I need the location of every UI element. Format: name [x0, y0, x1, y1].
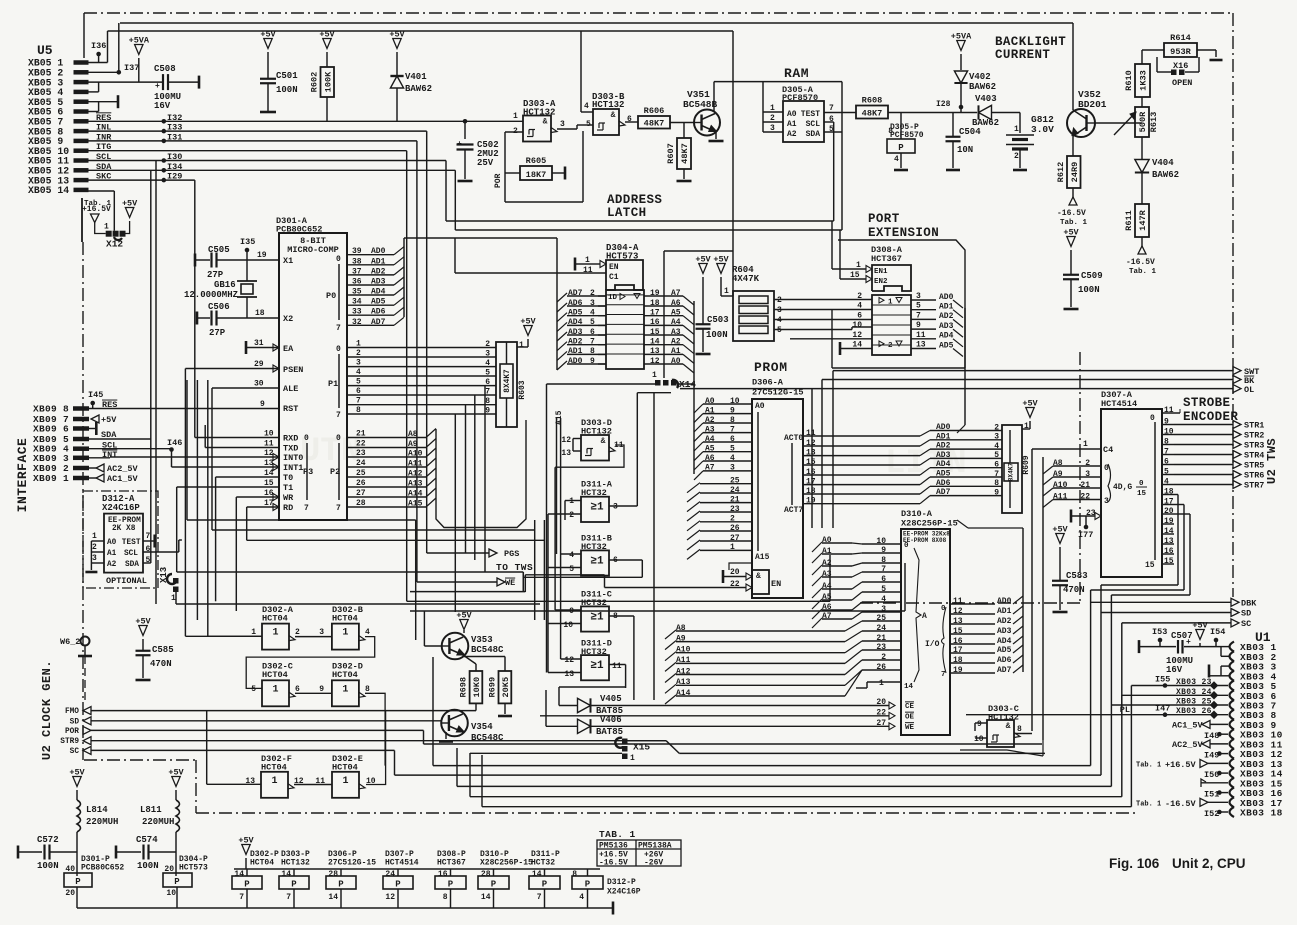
wire RAM top — [763, 82, 783, 132]
wire V353 emitter split — [463, 655, 505, 671]
text BACKLIGHT CURRENT — [995, 35, 1066, 62]
svg-text:7: 7 — [537, 893, 542, 902]
svg-text:100K: 100K — [323, 71, 333, 92]
svg-text:V354: V354 — [471, 722, 493, 732]
wire SDA line — [88, 170, 455, 563]
latch D304-A EN box — [606, 260, 643, 290]
svg-text:3: 3 — [777, 306, 782, 315]
svg-text:220MUH: 220MUH — [142, 817, 174, 827]
wire INT0 — [110, 456, 279, 458]
R603 pin numbers — [485, 340, 490, 416]
text PROM — [754, 360, 788, 375]
svg-text:8X4K7: 8X4K7 — [504, 369, 512, 393]
wire D303-B out 6 to R606 — [625, 115, 638, 124]
svg-text:AC2_5V: AC2_5V — [1172, 740, 1204, 750]
svg-text:AD4: AD4 — [997, 637, 1012, 646]
net -16.5V right — [1136, 798, 1228, 809]
svg-text:I55: I55 — [1155, 675, 1170, 685]
block D305-A PCF8570 — [782, 85, 824, 142]
stub XB03 15 — [1201, 779, 1228, 787]
svg-text:Tab. 1: Tab. 1 — [1129, 268, 1157, 276]
wire RST pin9 — [87, 400, 298, 414]
power +5V C503 — [695, 255, 711, 325]
gate D311-A HCT32 — [548, 480, 637, 523]
svg-text:P: P — [542, 880, 548, 890]
ground R699 — [498, 715, 512, 718]
svg-text:A15: A15 — [408, 500, 423, 509]
svg-text:P: P — [291, 880, 297, 890]
text INTERFACE — [15, 438, 30, 513]
svg-text:T0: T0 — [283, 473, 293, 483]
net INT XB09-3 — [89, 450, 117, 460]
svg-text:2: 2 — [295, 628, 300, 637]
svg-text:12: 12 — [561, 436, 571, 445]
svg-text:3: 3 — [319, 628, 324, 637]
svg-text:A0: A0 — [755, 402, 765, 411]
svg-text:4D,G: 4D,G — [1113, 483, 1132, 492]
svg-text:A13: A13 — [408, 480, 423, 489]
svg-text:ALE: ALE — [283, 384, 298, 394]
svg-text:U5: U5 — [37, 43, 53, 58]
resistor R611 — [1124, 204, 1149, 247]
svg-text:X1: X1 — [283, 256, 293, 266]
resistor network R603 8X4K7 — [496, 342, 527, 427]
svg-text:A15: A15 — [755, 553, 770, 562]
svg-text:AD5: AD5 — [371, 298, 386, 307]
svg-text:AC2_5V: AC2_5V — [107, 464, 139, 474]
block D303-P — [279, 850, 310, 908]
svg-text:I51: I51 — [1204, 790, 1219, 800]
wire TXD — [205, 447, 279, 449]
svg-text:7: 7 — [829, 104, 834, 113]
D310 fan A8-A14 — [665, 621, 862, 704]
svg-text:P: P — [585, 880, 591, 890]
wire ALE pin30 — [212, 380, 298, 531]
wire RAM pin6 SCL — [446, 115, 834, 221]
svg-text:PSEN: PSEN — [283, 365, 303, 375]
svg-text:D312-P: D312-P — [607, 878, 636, 887]
svg-text:HCT04: HCT04 — [262, 614, 288, 624]
svg-text:P1: P1 — [328, 379, 338, 389]
wire bus y797 — [470, 753, 1122, 797]
svg-text:AC1_5V: AC1_5V — [107, 474, 139, 484]
svg-text:7: 7 — [941, 671, 946, 679]
svg-text:7: 7 — [336, 411, 341, 420]
node I36 — [88, 41, 108, 63]
svg-text:STR9: STR9 — [60, 738, 79, 746]
svg-text:1: 1 — [513, 112, 518, 121]
svg-text:18: 18 — [255, 309, 265, 318]
resistor R605 — [505, 156, 565, 180]
svg-text:4: 4 — [579, 893, 584, 902]
svg-text:C507: C507 — [1171, 631, 1193, 641]
net +16.5V right — [1136, 759, 1228, 770]
svg-text:WR: WR — [283, 493, 294, 503]
block D306-A PROM box — [752, 399, 803, 598]
svg-text:T1: T1 — [283, 483, 293, 493]
power +5V R603 pin1 — [517, 317, 537, 351]
svg-text:RES: RES — [102, 400, 117, 410]
wires R604 outputs — [774, 296, 872, 335]
block D312 EE-PROM inner — [104, 514, 143, 573]
latch D304 outputs A7-A0 — [644, 289, 694, 474]
diode V405 BAT85 — [559, 687, 889, 716]
wire gates feed verticals — [548, 393, 654, 700]
micro P1 pins 1-8 to R603 — [347, 340, 496, 416]
svg-text:A14: A14 — [408, 490, 423, 499]
svg-text:BC548C: BC548C — [471, 733, 504, 743]
resistor R607 — [666, 123, 691, 180]
wire RAM pins 1-3 — [763, 104, 783, 133]
svg-text:1: 1 — [1083, 440, 1088, 449]
wire SCL line — [88, 161, 446, 605]
net OL — [680, 385, 1254, 528]
wire R613 to V404 — [1141, 137, 1143, 159]
svg-text:U2 CLOCK GEN.: U2 CLOCK GEN. — [40, 660, 54, 760]
ground V351 — [709, 140, 724, 143]
wire V403 to battery — [992, 113, 1021, 134]
svg-text:OE: OE — [905, 713, 915, 721]
D307 output pin numbers — [1162, 406, 1180, 568]
svg-text:1: 1 — [519, 341, 524, 350]
svg-text:HCT32: HCT32 — [531, 859, 555, 868]
svg-text:FMO: FMO — [65, 708, 79, 716]
svg-text:R606: R606 — [644, 106, 665, 116]
svg-text:≥1: ≥1 — [590, 555, 604, 567]
net AC1_5V right — [1172, 720, 1228, 730]
svg-text:L811: L811 — [140, 805, 162, 815]
block D307-A HCT4514 labels — [1101, 390, 1137, 409]
svg-text:≥1: ≥1 — [590, 502, 604, 514]
port P2 bracket — [330, 434, 341, 513]
svg-text:100N: 100N — [37, 861, 59, 871]
svg-text:HCT04: HCT04 — [332, 670, 358, 680]
wire FMO line — [91, 710, 476, 712]
capacitor C501 — [260, 30, 298, 113]
block D312-P — [572, 869, 641, 908]
connector XB09 pins — [33, 404, 89, 485]
wire R606 to V351 base — [670, 122, 694, 124]
wire SC line — [91, 750, 395, 775]
svg-text:A0: A0 — [787, 110, 797, 119]
node I50 — [1204, 770, 1228, 780]
bus outline D310 lower — [960, 740, 1043, 756]
resistor R614 — [1164, 33, 1197, 57]
net SDA XB09-5 — [89, 430, 151, 440]
svg-text:AD2: AD2 — [936, 442, 951, 451]
svg-text:2: 2 — [777, 296, 782, 305]
svg-text:A: A — [922, 612, 927, 621]
node I46 — [167, 438, 182, 452]
wire X1 — [257, 251, 293, 266]
node I28 — [936, 100, 963, 109]
svg-text:A2: A2 — [671, 338, 681, 347]
svg-text:X2: X2 — [283, 314, 293, 324]
svg-text:C1: C1 — [609, 273, 619, 282]
wire bus y776 — [395, 774, 1102, 776]
connector U1 XB03 1-18 — [1230, 642, 1283, 819]
svg-text:A5: A5 — [671, 309, 681, 318]
svg-text:8: 8 — [485, 397, 490, 406]
svg-text:TXD: TXD — [283, 444, 298, 454]
svg-text:2: 2 — [92, 543, 97, 552]
svg-text:3: 3 — [92, 554, 97, 563]
power -16.5V below R612 — [1057, 197, 1088, 227]
svg-text:3: 3 — [613, 503, 618, 512]
svg-text:PROM: PROM — [754, 360, 788, 375]
svg-text:6: 6 — [994, 461, 999, 470]
PROM EN box — [752, 570, 781, 594]
svg-text:100N: 100N — [276, 85, 298, 95]
svg-text:I46: I46 — [167, 438, 182, 448]
svg-text:AD7: AD7 — [997, 666, 1012, 675]
svg-text:X15: X15 — [633, 742, 650, 753]
svg-text:1: 1 — [272, 684, 278, 695]
connector X13 — [159, 567, 540, 604]
svg-text:28: 28 — [481, 870, 491, 879]
svg-text:R602: R602 — [310, 72, 320, 93]
svg-text:EXTENSION: EXTENSION — [868, 226, 939, 240]
wire U5 left border stub — [83, 13, 85, 58]
svg-text:R614: R614 — [1170, 33, 1191, 43]
svg-text:20: 20 — [730, 568, 740, 577]
svg-text:100N: 100N — [137, 861, 159, 871]
svg-text:STR7: STR7 — [1244, 481, 1264, 491]
svg-text:EN2: EN2 — [874, 278, 888, 286]
svg-text:-16.5V: -16.5V — [1126, 258, 1155, 267]
svg-text:24R9: 24R9 — [1070, 162, 1080, 183]
wire PROM pin22 — [605, 575, 753, 591]
wire R610 top to R614 — [1142, 50, 1164, 64]
svg-text:AD4: AD4 — [936, 460, 951, 469]
svg-text:I54: I54 — [1210, 627, 1225, 637]
svg-text:+5V: +5V — [101, 415, 117, 425]
svg-text:Tab. 1: Tab. 1 — [1136, 761, 1161, 769]
svg-text:I/O: I/O — [925, 640, 940, 649]
svg-text:2: 2 — [994, 423, 999, 432]
block D306-A 27C512G-15 labels — [752, 378, 804, 398]
net BK — [822, 376, 1255, 529]
wire D312 pin6 SCL — [143, 540, 182, 554]
wire SKC line — [88, 180, 195, 437]
block D310-P — [478, 850, 533, 908]
ground C502 — [458, 180, 473, 183]
svg-text:AD2: AD2 — [997, 617, 1012, 626]
text rotated A15 — [555, 410, 564, 425]
svg-text:R605: R605 — [526, 156, 547, 166]
block D304-P — [163, 855, 208, 908]
svg-text:WE: WE — [505, 578, 515, 588]
wire D310 pin1 — [856, 679, 901, 688]
svg-text:V402: V402 — [969, 72, 991, 82]
svg-text:STR3: STR3 — [1244, 441, 1264, 451]
svg-text:AD1: AD1 — [939, 303, 954, 312]
wire row8 long — [966, 686, 1132, 807]
svg-text:AD0: AD0 — [997, 597, 1012, 606]
svg-text:AC1_5V: AC1_5V — [1172, 721, 1204, 731]
svg-text:4: 4 — [894, 155, 899, 164]
capacitor C585 — [135, 617, 173, 681]
svg-text:1: 1 — [770, 104, 775, 113]
svg-text:1: 1 — [104, 223, 109, 232]
svg-text:AD5: AD5 — [939, 341, 954, 350]
svg-text:Unit 2, CPU: Unit 2, CPU — [1172, 856, 1246, 871]
svg-text:9: 9 — [260, 400, 265, 409]
power +5V C507 — [1192, 621, 1208, 647]
svg-text:≥1: ≥1 — [590, 611, 604, 623]
svg-text:PGS: PGS — [504, 549, 519, 559]
svg-text:X14: X14 — [679, 379, 696, 390]
micro-computer D301-A PCB80C652 — [276, 216, 347, 520]
capacitor C583 — [1052, 571, 1088, 612]
svg-text:V405: V405 — [600, 694, 622, 704]
svg-text:SC: SC — [70, 748, 80, 756]
text TO TWS — [496, 562, 533, 573]
svg-text:1: 1 — [585, 256, 590, 265]
svg-text:4: 4 — [777, 316, 782, 325]
gate D303-B HCT132 — [592, 92, 625, 135]
power -16.5V below R611 — [1126, 246, 1157, 276]
net AC2_5V — [89, 464, 139, 474]
svg-text:AD3: AD3 — [371, 278, 386, 287]
svg-text:28: 28 — [328, 870, 338, 879]
svg-text:OPTIONAL: OPTIONAL — [106, 576, 147, 586]
diode V406 BAT85 — [540, 690, 889, 737]
power +5V C509 — [1063, 228, 1079, 275]
svg-text:C572: C572 — [37, 835, 59, 845]
port P0 bracket — [326, 255, 341, 333]
svg-text:4: 4 — [857, 302, 862, 311]
svg-text:AD6: AD6 — [936, 479, 951, 488]
svg-text:A6: A6 — [671, 299, 681, 308]
block D308-A main box — [872, 295, 911, 355]
svg-text:I53: I53 — [1152, 627, 1167, 637]
wire RES line — [88, 120, 523, 122]
svg-text:1: 1 — [92, 532, 97, 541]
block D301-P — [64, 855, 124, 908]
power +5V C583 — [1052, 525, 1068, 581]
net DBK — [1091, 590, 1258, 766]
D310 fan A0-A7 — [812, 536, 862, 628]
text Fig. 106 Unit 2, CPU — [1109, 856, 1246, 871]
D307 inputs A8-A11 — [1043, 457, 1101, 740]
svg-text:12: 12 — [564, 656, 574, 665]
connector U5 pins XB05 1-14 — [28, 58, 89, 196]
svg-text:10: 10 — [166, 889, 176, 898]
svg-text:P: P — [898, 143, 904, 153]
svg-text:X28C256P-15: X28C256P-15 — [901, 519, 958, 529]
wire POR down — [505, 131, 583, 202]
svg-text:I37: I37 — [124, 63, 139, 73]
svg-text:AD0: AD0 — [936, 423, 951, 432]
svg-text:29: 29 — [254, 360, 264, 369]
svg-text:4: 4 — [584, 102, 589, 111]
net AC1_5V — [89, 474, 139, 484]
svg-text:6: 6 — [857, 311, 862, 320]
board boundary dash-dot left — [82, 198, 83, 760]
wire PSEN pin29 — [185, 360, 303, 636]
svg-text:EN1: EN1 — [874, 268, 888, 276]
svg-text:&: & — [1006, 722, 1011, 731]
svg-text:P2: P2 — [330, 467, 340, 477]
diode V401 BAW62 — [389, 30, 432, 122]
board boundary dash-dot bottom right — [860, 352, 1080, 603]
power +5V XB09-7 — [91, 415, 117, 425]
svg-text:3.0V: 3.0V — [1031, 124, 1054, 135]
svg-text:BC548C: BC548C — [471, 645, 504, 655]
net label RES at XB09 — [102, 400, 117, 410]
power +5VA — [129, 36, 150, 83]
svg-text:7: 7 — [286, 893, 291, 902]
svg-text:1: 1 — [630, 754, 635, 763]
svg-text:I36: I36 — [91, 41, 106, 51]
svg-text:&: & — [756, 572, 761, 581]
capacitor C503 — [696, 315, 729, 354]
PROM address pins A0-A7 — [694, 397, 752, 480]
wire D308 pin1 EN1 — [832, 221, 872, 273]
wire POR line — [91, 730, 1042, 744]
svg-text:48K7: 48K7 — [862, 108, 883, 118]
svg-text:30: 30 — [254, 380, 264, 389]
svg-text:STROBE: STROBE — [1183, 396, 1230, 410]
svg-text:5: 5 — [586, 120, 591, 129]
text U1 — [1255, 630, 1271, 645]
svg-text:4: 4 — [485, 359, 490, 368]
svg-text:AD6: AD6 — [371, 308, 386, 317]
block D308 pin rows — [852, 292, 963, 357]
connector W6_2 — [60, 637, 92, 701]
connector X14 — [652, 371, 696, 390]
wire R610 R613 junction — [1141, 97, 1143, 107]
inductor L811 — [140, 768, 185, 877]
connector U5 label — [37, 43, 53, 58]
block D302-P — [232, 850, 279, 908]
block D308-A HCT367 labels — [871, 245, 903, 264]
svg-text:V403: V403 — [975, 94, 997, 104]
wire V353 base — [424, 645, 441, 647]
wire bus y786 — [457, 748, 1111, 786]
svg-text:1: 1 — [342, 776, 348, 787]
svg-text:25V: 25V — [477, 158, 494, 168]
wire XB05 5-6 join — [88, 95, 118, 111]
svg-text:C508: C508 — [154, 64, 176, 74]
svg-text:P: P — [75, 877, 81, 887]
gate D302-F HCT04 — [207, 711, 304, 798]
svg-text:X24C16P: X24C16P — [607, 888, 641, 897]
resistor R608 — [856, 96, 888, 119]
svg-text:16V: 16V — [154, 101, 171, 111]
svg-text:48K7: 48K7 — [680, 143, 690, 164]
board boundary dash-dot bottom left — [84, 759, 196, 761]
svg-text:BAW62: BAW62 — [1152, 170, 1179, 180]
wire pin1 D303-A — [513, 112, 518, 121]
wire INR line — [88, 141, 417, 582]
svg-text:27C512G-15: 27C512G-15 — [328, 859, 376, 868]
svg-text:1K33: 1K33 — [1139, 70, 1149, 91]
svg-text:0: 0 — [904, 542, 909, 550]
svg-text:15: 15 — [1137, 490, 1147, 498]
node I49 — [1204, 751, 1228, 761]
svg-text:DBK: DBK — [1241, 599, 1257, 609]
gate D302-B HCT04 — [246, 605, 375, 688]
gate D303-C HCT132 — [974, 704, 1032, 747]
svg-text:SCL: SCL — [124, 550, 138, 558]
svg-text:HCT4514: HCT4514 — [1101, 399, 1137, 409]
wire C4 from D303-C — [1032, 440, 1101, 731]
svg-text:OL: OL — [1244, 385, 1254, 395]
svg-text:10: 10 — [974, 735, 984, 744]
wire XB03 1-2 join — [1221, 647, 1230, 657]
